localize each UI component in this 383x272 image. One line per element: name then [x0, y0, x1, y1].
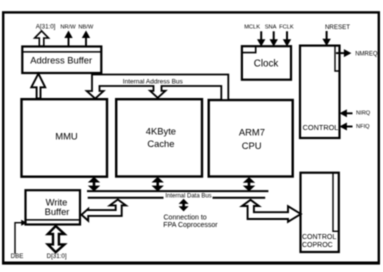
svg-text:SNA: SNA: [265, 24, 277, 30]
svg-text:Address Buffer: Address Buffer: [30, 55, 92, 66]
svg-text:D[31:0]: D[31:0]: [47, 253, 67, 260]
svg-text:Buffer: Buffer: [45, 206, 70, 217]
svg-text:COPROC: COPROC: [302, 242, 333, 249]
svg-text:NB/W: NB/W: [78, 24, 93, 30]
svg-text:FCLK: FCLK: [279, 24, 294, 30]
svg-text:FPA Coprocessor: FPA Coprocessor: [163, 222, 218, 229]
svg-text:CPU: CPU: [242, 140, 262, 151]
svg-text:CONTROL: CONTROL: [303, 123, 339, 132]
svg-text:Connection to: Connection to: [164, 215, 207, 222]
svg-text:DBE: DBE: [11, 253, 24, 260]
svg-text:Internal Data Bus: Internal Data Bus: [165, 193, 211, 199]
svg-text:NIRQ: NIRQ: [356, 111, 371, 117]
svg-text:NMREQ: NMREQ: [355, 51, 378, 57]
svg-text:Cache: Cache: [147, 138, 174, 149]
svg-text:CONTROL: CONTROL: [302, 234, 336, 241]
svg-text:ARM7: ARM7: [239, 126, 265, 137]
svg-text:NFIQ: NFIQ: [356, 124, 370, 130]
svg-text:4KByte: 4KByte: [146, 125, 176, 136]
svg-text:MMU: MMU: [55, 131, 78, 142]
svg-text:NRESET: NRESET: [325, 24, 350, 31]
svg-text:NR/W: NR/W: [60, 24, 76, 30]
svg-text:Clock: Clock: [254, 59, 279, 70]
svg-text:MCLK: MCLK: [244, 24, 260, 30]
svg-text:Internal Address Bus: Internal Address Bus: [123, 78, 184, 85]
svg-text:A[31:0]: A[31:0]: [36, 23, 56, 30]
